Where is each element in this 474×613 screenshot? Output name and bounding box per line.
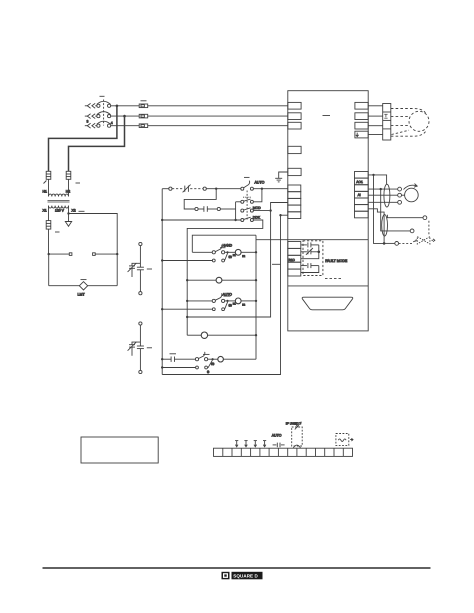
- svg-text:(R): (R): [211, 363, 215, 366]
- bottom selector contact and coil: [195, 352, 256, 366]
- relay contact R2A NO: [301, 263, 319, 272]
- svg-text:SQUARE D: SQUARE D: [233, 574, 258, 579]
- svg-text:MOD: MOD: [253, 206, 261, 210]
- selector switch deck 1 AUTO: [241, 177, 288, 190]
- junction railC-317: [186, 316, 188, 318]
- svg-text:X1: X1: [43, 209, 47, 213]
- tiny note marks: [325, 278, 342, 280]
- wire to drive block bottom corner: [256, 239, 288, 241]
- svg-text:(I): (I): [207, 371, 209, 374]
- rail B control common: [162, 215, 288, 374]
- selector switch deck 3 MOD: [241, 208, 270, 212]
- circuit breaker CB1 (3-pole): [87, 96, 113, 127]
- wire rail to deck4: [162, 219, 241, 221]
- fuse F2: [66, 171, 80, 183]
- shielded cable 1: [384, 184, 390, 207]
- rail A from stack row3 down: [187, 203, 288, 318]
- bottom interlock NO contact plates: [162, 354, 195, 362]
- wire from row1 junction down-around: [184, 189, 216, 209]
- footer rule: [43, 567, 431, 569]
- remote signal dashed box: [336, 434, 349, 446]
- rail coil-return: [255, 235, 257, 359]
- fault mode dashed box: [303, 241, 323, 276]
- svg-text:IF USED: IF USED: [286, 422, 300, 426]
- drive output terminals T1 T2 T3 PE: [355, 102, 368, 137]
- control transformer T1 primary H1-H2: [49, 194, 69, 196]
- junction node analog: [372, 174, 374, 176]
- svg-text:(R): (R): [229, 256, 233, 259]
- drive section separator 1: [288, 239, 368, 241]
- svg-text:120 V: 120 V: [55, 209, 65, 213]
- svg-text:DDK: DDK: [253, 216, 261, 220]
- shielded cable 2: [382, 215, 388, 236]
- svg-text:K2: K2: [242, 304, 246, 307]
- terminal circle: [395, 242, 399, 246]
- HAND aux contact row: [162, 253, 227, 262]
- junction X2 node: [67, 212, 69, 214]
- field NO contact (plates): [195, 206, 236, 212]
- drive label: [323, 115, 331, 117]
- speed potentiometer: [401, 184, 418, 202]
- selector switch deck 4 DDC: [241, 217, 254, 221]
- terminal strip T2: [383, 104, 391, 141]
- ground symbol at X2: [65, 214, 71, 227]
- fuse F1: [44, 171, 51, 183]
- remote shutdown NC contact (dashed field wiring): [162, 185, 241, 193]
- junction node: [234, 219, 236, 221]
- tie vertical to deck2/DDC: [235, 202, 237, 220]
- field interlock switch S1: [128, 242, 152, 294]
- svg-text:HAND: HAND: [223, 244, 233, 248]
- ladder left rail: [161, 189, 163, 375]
- svg-text:(R): (R): [229, 304, 233, 307]
- svg-text:AUTO: AUTO: [272, 433, 282, 437]
- pilot light row: [187, 277, 256, 283]
- wire L stubs into breaker: [96, 106, 98, 126]
- Square D logo mark: [222, 572, 230, 580]
- svg-text:X2: X2: [72, 209, 76, 213]
- junction node shield: [383, 242, 386, 245]
- svg-text:3: 3: [87, 120, 89, 124]
- PE terminal left: [288, 168, 301, 175]
- junction node on pot wire: [380, 188, 382, 190]
- shield wires: [387, 215, 423, 218]
- wire drop to transformer primary fuse 1: [49, 106, 117, 172]
- wire X2 leg: [68, 206, 70, 214]
- lower pilot light row: [187, 332, 256, 338]
- wire signal to terminal: [381, 189, 411, 231]
- wire drop to transformer primary fuse 2: [69, 116, 125, 171]
- motor leads dashed: [391, 109, 426, 137]
- link railA-railB: [272, 263, 281, 265]
- terminal circle: [423, 216, 427, 220]
- AUTO aux contact row: [162, 302, 227, 311]
- wire AI lower through shield: [368, 209, 384, 244]
- wire X2 to control circuit: [69, 214, 118, 255]
- wire hand feed: [192, 235, 256, 252]
- wires drive to T2 terminal strip: [368, 106, 383, 135]
- auto terminal marks: [273, 443, 285, 448]
- limit circuit top wire with field contact terminals: [49, 253, 118, 256]
- svg-text:4: 4: [111, 121, 113, 125]
- analog terminal stack: [355, 172, 369, 218]
- wire fuses to transformer: [49, 179, 69, 196]
- junction dot line1: [116, 105, 119, 108]
- wire deck2 left to interlock net: [236, 201, 241, 203]
- fuse F3 secondary: [46, 221, 59, 232]
- drive controller U1 outline: [288, 91, 368, 331]
- svg-text:AI: AI: [358, 193, 361, 197]
- transformer secondary X1-X2 120V: [49, 206, 69, 208]
- junction node row1: [215, 188, 217, 190]
- junction node MOD-railA: [269, 209, 271, 211]
- svg-text:AO1: AO1: [356, 180, 363, 184]
- svg-text:R1C: R1C: [289, 258, 296, 262]
- control input terminal stack LI: [288, 185, 301, 219]
- analog return rail: [374, 175, 385, 244]
- AUTO selector contact and relay coil: [187, 292, 257, 307]
- junction dot line2: [123, 115, 126, 118]
- terminal circle: [410, 229, 414, 233]
- junction dot right: [116, 253, 118, 255]
- field interlock switch S2: [128, 322, 152, 374]
- svg-text:H2: H2: [66, 190, 70, 194]
- svg-text:LMT: LMT: [78, 293, 86, 297]
- bottom aux contact row: [162, 360, 212, 373]
- field transducer dashed: [399, 221, 435, 244]
- wire AUTO out drop to deck2: [253, 189, 262, 202]
- relay contact R1B NC: [301, 248, 319, 255]
- wire to transducer terminal: [384, 242, 395, 244]
- pot wires: [368, 187, 401, 204]
- wire breaker outputs to drive input terminals: [111, 106, 288, 126]
- drive input terminals L1 L2 L3: [288, 102, 301, 129]
- wire analog common: [368, 175, 386, 184]
- relay terminal stack R1 R2: [288, 242, 301, 277]
- selector switch deck 2: [241, 197, 254, 203]
- if-used dashed box with strike: [292, 427, 303, 446]
- fuse blocks on lines: [139, 101, 148, 128]
- junction node AUTO out: [261, 188, 263, 190]
- limit circuit loop wires: [49, 254, 118, 286]
- junction node railB top: [279, 214, 281, 216]
- wire X1 leg: [48, 206, 50, 255]
- svg-text:H1: H1: [43, 190, 47, 194]
- junction dot rail-L deck4: [161, 219, 163, 221]
- ground symbol drive: [275, 172, 288, 182]
- spare terminal: [288, 146, 301, 153]
- svg-text:AUTO: AUTO: [255, 180, 265, 184]
- field wiring arrows: [235, 441, 266, 447]
- junction dot left: [48, 253, 50, 255]
- relay contact R1A NO: [301, 242, 319, 258]
- motor M1 dashed: [409, 111, 429, 131]
- HAND selector contact and relay coil: [192, 244, 257, 259]
- indicator LMT diamond: [79, 280, 87, 290]
- jumper arc: [293, 445, 300, 448]
- Square D logo text: [232, 572, 263, 580]
- transformer core: [48, 200, 70, 202]
- bottom terminal strip TB1: [214, 448, 353, 456]
- svg-text:K2: K2: [242, 255, 246, 258]
- wire DDC out loop to rail C: [187, 220, 263, 335]
- selector linkage dashed: [246, 191, 248, 220]
- incoming line chevrons L1 L2 L3: [85, 103, 97, 128]
- drive section separator 2: [288, 285, 368, 287]
- junction node relay: [318, 251, 321, 254]
- keypad display trapezoid: [302, 297, 353, 310]
- svg-text:FAULT MODE: FAULT MODE: [325, 259, 348, 263]
- notes box: [81, 437, 158, 463]
